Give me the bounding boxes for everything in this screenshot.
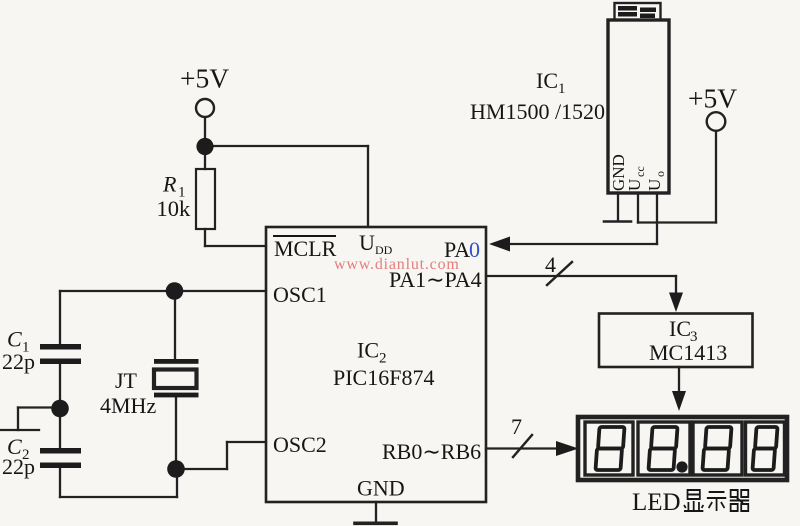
svg-text:IC: IC <box>357 338 379 363</box>
svg-text:U: U <box>625 179 644 191</box>
svg-text:www.dianlut.com: www.dianlut.com <box>334 256 460 273</box>
svg-text:10k: 10k <box>157 196 192 221</box>
svg-text:OSC1: OSC1 <box>273 282 327 307</box>
svg-text:cc: cc <box>633 166 647 177</box>
svg-text:1: 1 <box>558 81 566 97</box>
svg-text:22p: 22p <box>2 349 35 374</box>
svg-text:MC1413: MC1413 <box>649 340 727 365</box>
svg-text:C: C <box>7 327 22 352</box>
svg-text:DD: DD <box>375 243 393 257</box>
svg-text:MCLR: MCLR <box>274 236 337 261</box>
svg-text:U: U <box>359 230 375 255</box>
svg-text:7: 7 <box>511 414 522 439</box>
svg-text:LED: LED <box>632 489 681 516</box>
svg-text:HM1500 /1520: HM1500 /1520 <box>470 99 605 124</box>
svg-text:4MHz: 4MHz <box>100 393 156 418</box>
svg-text:PIC16F874: PIC16F874 <box>333 365 434 390</box>
svg-text:GND: GND <box>357 476 405 501</box>
svg-text:4: 4 <box>545 252 556 277</box>
svg-text:o: o <box>653 171 667 177</box>
svg-text:JT: JT <box>115 368 138 393</box>
svg-text:0: 0 <box>469 237 480 262</box>
svg-text:22p: 22p <box>2 454 35 479</box>
svg-text:RB0∼RB6: RB0∼RB6 <box>382 439 481 464</box>
svg-text:IC: IC <box>536 68 558 93</box>
svg-text:+5V: +5V <box>688 83 737 114</box>
svg-text:+5V: +5V <box>180 63 229 94</box>
svg-text:R: R <box>162 172 177 197</box>
svg-text:OSC2: OSC2 <box>273 432 327 457</box>
svg-text:U: U <box>645 179 664 191</box>
svg-text:IC: IC <box>669 316 691 341</box>
